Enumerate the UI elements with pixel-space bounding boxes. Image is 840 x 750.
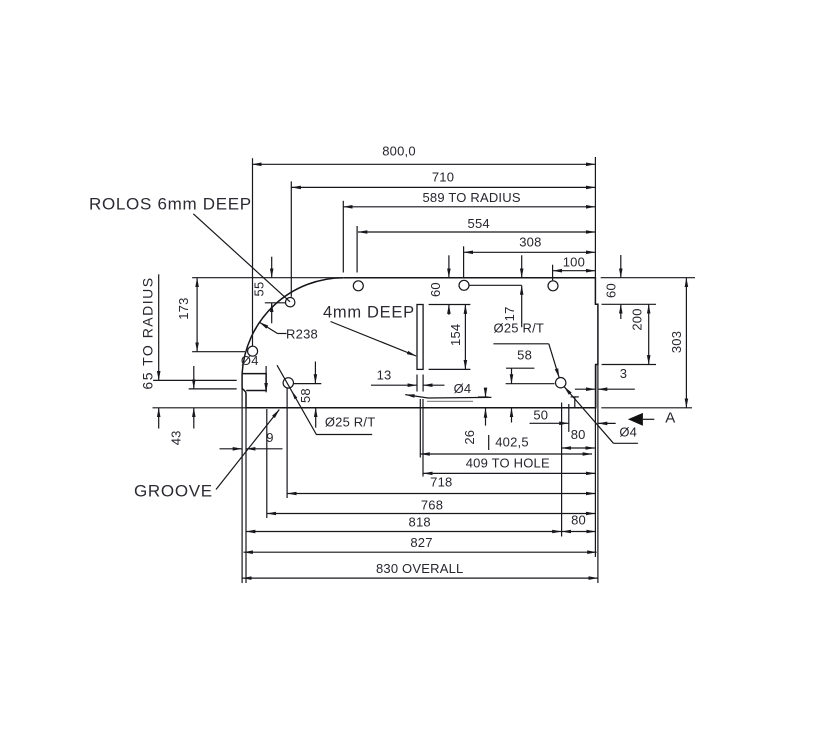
svg-text:26: 26 bbox=[462, 430, 477, 445]
svg-text:827: 827 bbox=[410, 535, 432, 550]
svg-text:718: 718 bbox=[430, 475, 452, 490]
svg-text:50: 50 bbox=[533, 407, 548, 422]
svg-text:Ø4: Ø4 bbox=[454, 381, 472, 396]
svg-text:58: 58 bbox=[517, 348, 532, 363]
svg-text:173: 173 bbox=[176, 297, 191, 319]
svg-text:17: 17 bbox=[502, 306, 517, 321]
svg-text:43: 43 bbox=[168, 430, 183, 445]
svg-text:Ø4: Ø4 bbox=[619, 425, 637, 440]
svg-text:13: 13 bbox=[377, 367, 392, 382]
svg-text:GROOVE: GROOVE bbox=[134, 482, 213, 501]
svg-text:60: 60 bbox=[428, 282, 443, 297]
svg-text:58: 58 bbox=[298, 388, 313, 403]
svg-text:3: 3 bbox=[620, 366, 627, 381]
svg-text:80: 80 bbox=[571, 427, 586, 442]
svg-text:554: 554 bbox=[468, 216, 490, 231]
svg-text:Ø4: Ø4 bbox=[241, 353, 259, 368]
svg-text:710: 710 bbox=[432, 169, 454, 184]
svg-text:4mm DEEP: 4mm DEEP bbox=[323, 304, 415, 322]
svg-text:60: 60 bbox=[603, 283, 618, 298]
svg-text:402,5: 402,5 bbox=[495, 434, 529, 449]
svg-text:830 OVERALL: 830 OVERALL bbox=[376, 561, 463, 576]
svg-text:308: 308 bbox=[519, 234, 541, 249]
svg-text:ROLOS 6mm DEEP: ROLOS 6mm DEEP bbox=[89, 195, 252, 214]
svg-text:A: A bbox=[665, 410, 675, 427]
svg-text:65 TO RADIUS: 65 TO RADIUS bbox=[140, 276, 156, 389]
svg-text:154: 154 bbox=[448, 324, 463, 346]
svg-text:R238: R238 bbox=[286, 327, 318, 342]
svg-text:800,0: 800,0 bbox=[382, 143, 416, 158]
svg-text:409 TO HOLE: 409 TO HOLE bbox=[466, 455, 550, 470]
svg-text:55: 55 bbox=[251, 282, 266, 297]
svg-text:80: 80 bbox=[571, 513, 586, 528]
svg-text:818: 818 bbox=[409, 514, 431, 529]
svg-text:Ø25 R/T: Ø25 R/T bbox=[325, 414, 376, 429]
svg-text:589 TO RADIUS: 589 TO RADIUS bbox=[422, 190, 520, 205]
svg-text:768: 768 bbox=[421, 498, 443, 513]
svg-text:200: 200 bbox=[630, 308, 645, 330]
svg-text:303: 303 bbox=[669, 331, 684, 353]
svg-text:100: 100 bbox=[563, 255, 585, 270]
svg-text:Ø25 R/T: Ø25 R/T bbox=[494, 321, 545, 336]
